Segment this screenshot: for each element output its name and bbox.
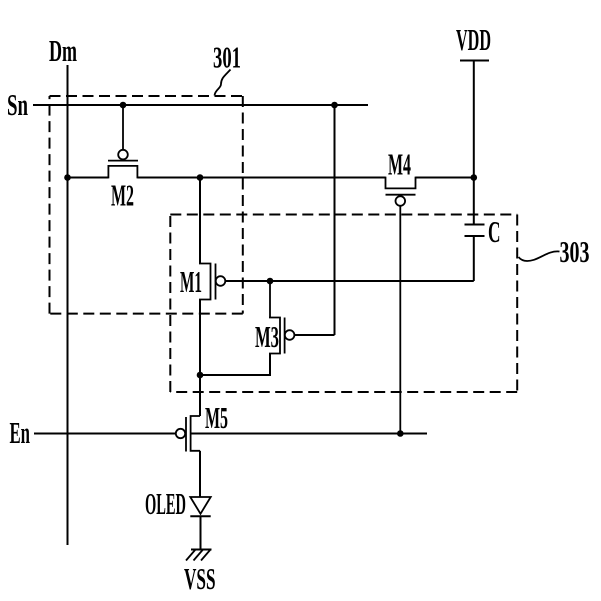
junction node storage wire / M3 drain (267, 278, 274, 285)
transistor M5 (176, 400, 228, 452)
svg-text:Dm: Dm (49, 33, 77, 68)
svg-text:M2: M2 (111, 178, 134, 213)
wire: node down to M5 (199, 375, 201, 416)
leader line to box 303 (519, 251, 560, 261)
wire: M2 drain to M4 source (137, 177, 385, 179)
wire: VDD rail down to capacitor top plate (473, 61, 475, 225)
transistor M2 (108, 105, 138, 213)
leader line to box 301 (215, 70, 231, 96)
wire: M1 source down to node (199, 300, 201, 376)
transistor M3 (255, 281, 294, 354)
svg-text:VDD: VDD (456, 22, 491, 57)
wire: enable line En left segment (34, 433, 176, 435)
svg-text:VSS: VSS (184, 561, 216, 596)
transistor M1 (180, 264, 225, 300)
junction node M1 source / M3 source / M5 drain (197, 372, 204, 379)
dashed box 301 (50, 96, 243, 314)
svg-text:M3: M3 (255, 319, 279, 354)
capacitor C (465, 214, 501, 249)
svg-text:OLED: OLED (145, 486, 186, 521)
wire: Sn branch down to M3 gate (334, 105, 336, 335)
wire: M4 drain to VDD rail (416, 177, 474, 179)
wire: M5 source to OLED anode (199, 451, 201, 498)
wire: storage node from M1 gate to capacitor (225, 280, 474, 282)
wire: M3 gate to Sn branch (294, 334, 334, 336)
wire: data line Dm (67, 65, 69, 545)
wire: M2 drain down to M1 (199, 178, 201, 264)
junction node Sn / M2 gate (120, 102, 127, 109)
svg-text:M4: M4 (388, 147, 411, 182)
OLED diode (145, 486, 211, 521)
junction node M2 drain / M1 drain (197, 174, 204, 181)
ground VSS (184, 550, 216, 597)
svg-text:303: 303 (560, 234, 590, 269)
junction node VDD / M4 drain (471, 174, 478, 181)
wire: scan line Sn (33, 104, 368, 106)
svg-text:M5: M5 (205, 400, 228, 435)
junction node Dm / M2 source (64, 174, 71, 181)
wire: OLED cathode to VSS (200, 516, 202, 549)
svg-text:C: C (488, 214, 501, 249)
junction node Sn / branch to M3 gate (331, 102, 338, 109)
wire: enable line En right segment (191, 433, 427, 435)
dashed box 303 (170, 215, 517, 393)
wire: M3 source to node at M1 (200, 354, 270, 376)
junction node En / M4 gate lead (397, 430, 404, 437)
svg-text:En: En (10, 415, 31, 450)
wire: row from Dm to M2 source (68, 177, 109, 179)
wire: capacitor bottom lead (473, 236, 475, 281)
svg-text:Sn: Sn (7, 87, 28, 122)
VDD supply bar (460, 60, 489, 62)
svg-text:M1: M1 (180, 264, 202, 299)
svg-text:301: 301 (213, 40, 241, 75)
transistor M4 (386, 147, 416, 434)
